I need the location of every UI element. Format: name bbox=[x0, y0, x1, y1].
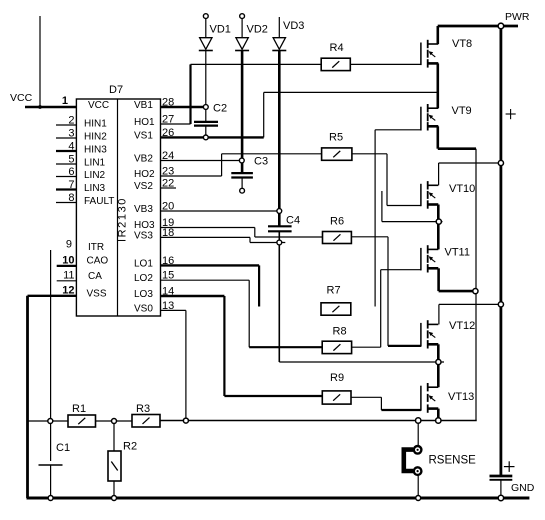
wire VT10 gate lead bbox=[387, 205, 421, 207]
wire: VCC to pin 1 bbox=[25, 106, 76, 108]
wire R1 to R3 bbox=[96, 420, 133, 422]
svg-text:VT9: VT9 bbox=[452, 105, 472, 117]
resistor R9 bbox=[322, 372, 351, 404]
svg-text:R6: R6 bbox=[330, 216, 344, 228]
wire pin16 LO1 thick bbox=[161, 264, 260, 266]
wire R8 riser to VT11 gate bbox=[380, 270, 382, 348]
wire RSENSE top lead bbox=[417, 421, 419, 447]
IC U1 driver D7 IR2130 body bbox=[76, 84, 160, 316]
junction R1 right bbox=[112, 419, 117, 424]
svg-text:GND: GND bbox=[511, 482, 535, 494]
svg-text:1: 1 bbox=[62, 95, 68, 107]
svg-text:CAO: CAO bbox=[87, 256, 109, 267]
junction rail VT12 bbox=[498, 302, 503, 307]
resistor RSENSE bbox=[404, 446, 476, 475]
pin 5 stub bbox=[56, 163, 76, 165]
junction rail GND cap bbox=[498, 495, 503, 500]
junction VB3/VD3 bbox=[277, 209, 282, 214]
transistor VT8 bbox=[421, 38, 472, 68]
wire HO1 riser to R4 line bbox=[189, 64, 191, 124]
wire LO3 drop bbox=[223, 296, 225, 396]
wire VT11 source down bbox=[437, 268, 440, 291]
plus mark near rail bbox=[506, 109, 516, 119]
wire feedback riser bbox=[50, 250, 52, 421]
junction phase C bbox=[436, 359, 441, 364]
resistor R1 bbox=[68, 403, 96, 427]
svg-text:VD1: VD1 bbox=[210, 24, 231, 36]
wire VT13 gate lead thick bbox=[381, 409, 421, 411]
svg-text:VT12: VT12 bbox=[449, 320, 475, 332]
capacitor C2 bbox=[194, 103, 227, 126]
svg-text:LO1: LO1 bbox=[134, 258, 153, 269]
diode VD2 bbox=[235, 14, 268, 173]
IC right pin numbers bbox=[162, 97, 174, 312]
resistor R5 bbox=[322, 132, 352, 161]
wire pin19 HO3 bbox=[161, 227, 255, 229]
wire R9 jog bbox=[380, 397, 382, 410]
wire VS3 horizontal bbox=[250, 242, 285, 244]
svg-text:VS0: VS0 bbox=[134, 303, 153, 314]
junction rail C1 bbox=[48, 496, 53, 501]
svg-text:VS2: VS2 bbox=[134, 181, 153, 192]
wire phase C horizontal bbox=[279, 361, 444, 363]
wire: VCC input vertical bbox=[39, 16, 41, 107]
wire low-side source bus bbox=[475, 149, 477, 421]
wire R2 top lead bbox=[113, 421, 115, 451]
svg-text:VS3: VS3 bbox=[134, 230, 153, 241]
svg-text:IR2130: IR2130 bbox=[117, 197, 129, 242]
wire R8 left bbox=[249, 346, 322, 348]
svg-text:8: 8 bbox=[68, 192, 74, 204]
wire pin20 VB3 to VD3 bbox=[161, 210, 280, 212]
wire R7 right riser to VT9 gate bbox=[374, 130, 376, 307]
wire pin27 HO1 bbox=[161, 123, 191, 125]
wire R6 drop bbox=[387, 237, 389, 346]
svg-text:VT13: VT13 bbox=[448, 391, 474, 403]
wire R4 left from HO1 riser bbox=[191, 63, 322, 65]
wire R9 right bbox=[351, 396, 381, 398]
svg-text:R7: R7 bbox=[327, 285, 341, 297]
svg-text:HIN1: HIN1 bbox=[84, 119, 107, 130]
svg-text:HO1: HO1 bbox=[134, 117, 155, 128]
svg-text:VSS: VSS bbox=[87, 289, 107, 300]
wire R5 right bbox=[352, 153, 387, 155]
junction low bus VT11 bbox=[473, 289, 478, 294]
wire R1 row left bbox=[28, 420, 69, 422]
junction phase B bbox=[436, 219, 441, 224]
wire pin23 HO2 bbox=[161, 175, 222, 177]
wire pin14 LO3 thick bbox=[161, 295, 225, 297]
svg-text:4: 4 bbox=[68, 141, 74, 153]
resistor R3 bbox=[132, 403, 160, 427]
diode VD1 bbox=[199, 14, 231, 107]
junction VS1/C2 bbox=[203, 135, 208, 140]
svg-text:C4: C4 bbox=[286, 215, 300, 227]
svg-text:7: 7 bbox=[68, 179, 74, 191]
transistor VT10 bbox=[421, 181, 475, 209]
wire pin28 VB1 to VD1 bbox=[161, 106, 206, 108]
wire right positive rail bbox=[499, 26, 502, 476]
wire C4 bottom lead bbox=[278, 231, 280, 242]
svg-text:VT11: VT11 bbox=[445, 247, 470, 259]
transistor VT12 bbox=[421, 320, 475, 349]
wire R6 right bbox=[351, 236, 388, 238]
capacitor GND electrolytic bbox=[490, 461, 535, 498]
capacitor C3 bbox=[231, 156, 268, 178]
wire VT12 source to VT13 drain bbox=[437, 344, 440, 387]
wire VT12 gate lead thick bbox=[388, 345, 421, 347]
pin 12 wire VSS to left rail bbox=[28, 295, 77, 297]
wire VT10 source to VT11 drain bbox=[437, 205, 440, 250]
transistor VT13 bbox=[421, 383, 474, 413]
wire pin15 LO2 bbox=[161, 279, 250, 281]
junction rail VT10 bbox=[498, 160, 503, 165]
wire pin13 VS0 bbox=[161, 309, 186, 311]
wire VT8 drain up bbox=[436, 26, 439, 44]
svg-text:LIN1: LIN1 bbox=[84, 158, 106, 169]
svg-text:5: 5 bbox=[68, 154, 74, 166]
svg-text:R9: R9 bbox=[330, 372, 344, 384]
svg-text:VB1: VB1 bbox=[134, 100, 153, 111]
svg-text:PWR: PWR bbox=[505, 11, 530, 23]
wire VT8 source to VT9 drain bbox=[436, 63, 439, 108]
wire sense node horizontal bbox=[160, 420, 477, 422]
svg-text:9: 9 bbox=[66, 239, 72, 251]
wire VS0 drop to sense node bbox=[185, 310, 187, 420]
wire VD1 to C2 bbox=[205, 107, 207, 122]
wire VS3 jog bbox=[249, 237, 251, 242]
wire phase B stub top bbox=[381, 191, 383, 222]
pin 4 stub bbox=[56, 150, 76, 152]
wire VS1 riser bbox=[263, 92, 265, 137]
wire pin24 VB2 to VD2 bbox=[161, 160, 242, 162]
wire LO2 drop to R8 bbox=[248, 280, 250, 347]
svg-text:VCC: VCC bbox=[10, 92, 33, 104]
pin 8 stub bbox=[56, 202, 76, 204]
pin 3 stub bbox=[56, 137, 76, 139]
pin 6 stub bbox=[56, 176, 76, 178]
svg-text:LO2: LO2 bbox=[134, 273, 153, 284]
svg-text:R1: R1 bbox=[72, 403, 86, 415]
svg-text:CA: CA bbox=[88, 271, 102, 282]
junction R1 left bbox=[48, 419, 53, 424]
resistor R2 bbox=[108, 441, 137, 482]
wire R5 drop to VT10 gate bbox=[386, 154, 388, 206]
wire pin18 VS3 bbox=[161, 236, 251, 238]
transistor VT9 bbox=[421, 104, 472, 131]
wire R8 right bbox=[352, 346, 381, 348]
transistor VT11 bbox=[421, 245, 470, 272]
pin 10 stub bbox=[57, 265, 77, 267]
svg-text:R2: R2 bbox=[123, 441, 137, 453]
junction rail RSENSE bbox=[416, 496, 421, 501]
svg-text:2: 2 bbox=[68, 115, 74, 127]
wire HO3 jog down bbox=[254, 228, 256, 238]
wire VT10 drain riser bbox=[438, 163, 440, 185]
junction rail top bbox=[498, 23, 504, 29]
svg-text:VD2: VD2 bbox=[247, 24, 268, 36]
junction VS3/C4 bbox=[277, 240, 282, 245]
wire LO3 to R9 bbox=[224, 395, 322, 397]
svg-text:HIN2: HIN2 bbox=[84, 132, 107, 143]
wire left rail bbox=[26, 296, 29, 498]
wire RSENSE bottom lead bbox=[417, 475, 419, 498]
wire R5 left bbox=[222, 153, 322, 155]
wire VT10 drain to rail bbox=[439, 162, 501, 164]
svg-text:6: 6 bbox=[68, 166, 74, 178]
wire VT11 gate lead bbox=[381, 269, 421, 271]
svg-text:12: 12 bbox=[62, 285, 74, 297]
wire VT9 gate lead bbox=[375, 129, 421, 131]
svg-text:C1: C1 bbox=[56, 442, 70, 454]
svg-text:3: 3 bbox=[68, 128, 74, 140]
capacitor C4 bbox=[268, 215, 300, 232]
wire phase B horizontal bbox=[382, 221, 443, 223]
svg-text:R4: R4 bbox=[330, 42, 344, 54]
wire VS3 drop to phase C bbox=[278, 243, 280, 363]
svg-text:R3: R3 bbox=[136, 403, 150, 415]
wire VT11 source right bbox=[439, 290, 476, 293]
wire LO1 drop to R7 bbox=[258, 265, 260, 306]
junction VB2/VD2 bbox=[239, 158, 244, 163]
resistor R4 bbox=[321, 42, 350, 71]
svg-text:LO3: LO3 bbox=[134, 289, 153, 300]
svg-text:VT8: VT8 bbox=[452, 38, 472, 50]
svg-text:C3: C3 bbox=[254, 156, 268, 168]
svg-text:VCC: VCC bbox=[88, 100, 109, 111]
wire HO3 to R6 bbox=[255, 236, 323, 238]
svg-text:10: 10 bbox=[62, 255, 74, 267]
capacitor C1 bbox=[39, 421, 71, 498]
wire HO2 riser to R5 bbox=[221, 154, 223, 176]
svg-text:HO2: HO2 bbox=[134, 169, 155, 180]
svg-text:R5: R5 bbox=[329, 132, 343, 144]
wire VT12 drain to rail bbox=[439, 303, 501, 305]
pin 7 stub bbox=[56, 188, 76, 190]
resistor R6 bbox=[323, 216, 352, 244]
junction sense RSENSE bbox=[416, 418, 421, 423]
wire ground rail bottom bbox=[27, 497, 530, 500]
svg-text:VT10: VT10 bbox=[449, 183, 475, 195]
junction rail R2 bbox=[112, 496, 117, 501]
junction on VCC wire bbox=[38, 105, 42, 109]
svg-text:R8: R8 bbox=[333, 326, 347, 338]
IC left pin names bbox=[84, 100, 114, 300]
svg-text:ITR: ITR bbox=[88, 242, 104, 253]
svg-text:VB3: VB3 bbox=[134, 204, 153, 215]
svg-text:VB2: VB2 bbox=[134, 154, 153, 165]
svg-text:VD3: VD3 bbox=[283, 20, 304, 32]
IC right pin names bbox=[134, 100, 155, 314]
pin 2 stub bbox=[56, 124, 76, 126]
junction VB1/VD1 bbox=[203, 105, 208, 110]
svg-text:HIN3: HIN3 bbox=[84, 145, 107, 156]
svg-text:LIN2: LIN2 bbox=[84, 170, 106, 181]
wire VT12 drain riser bbox=[438, 304, 440, 324]
wire VT9 source down bbox=[436, 126, 439, 148]
wire R2 bottom lead bbox=[113, 481, 115, 498]
svg-text:C2: C2 bbox=[213, 103, 227, 115]
diode VD3 bbox=[272, 17, 304, 226]
svg-text:LIN3: LIN3 bbox=[84, 183, 106, 194]
wire VT13 source down bbox=[437, 409, 440, 421]
junction sense VT13 bbox=[436, 418, 441, 423]
wire VT9 source right bbox=[438, 147, 476, 150]
svg-text:11: 11 bbox=[63, 270, 74, 282]
junction VS0 sense bbox=[183, 418, 188, 423]
wire C2 bottom lead bbox=[205, 126, 207, 138]
svg-text:RSENSE: RSENSE bbox=[429, 455, 477, 467]
pin 11 stub bbox=[57, 280, 77, 282]
svg-text:VS1: VS1 bbox=[134, 130, 153, 141]
svg-text:FAULT: FAULT bbox=[84, 196, 114, 207]
resistor R8 bbox=[322, 326, 351, 354]
wire R4 to VT8 gate bbox=[350, 63, 421, 65]
pin22 VS2 stub bbox=[161, 187, 177, 189]
terminal C3 bottom bbox=[240, 188, 245, 193]
wire VS1 to phase A bbox=[264, 91, 438, 93]
wire pin26 VS1 thick bbox=[161, 136, 264, 138]
wire C3 bottom lead bbox=[241, 178, 243, 189]
resistor R7 bbox=[321, 285, 351, 316]
svg-text:D7: D7 bbox=[109, 84, 123, 96]
wire PWR rail top bbox=[438, 25, 518, 28]
svg-text:HO3: HO3 bbox=[134, 220, 155, 231]
